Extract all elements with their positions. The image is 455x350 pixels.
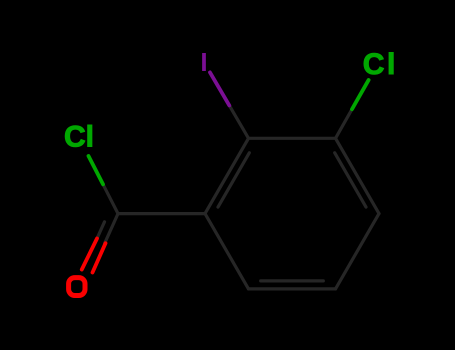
svg-text:I: I bbox=[200, 47, 207, 77]
svg-text:Cl: Cl bbox=[64, 121, 94, 154]
svg-text:Cl: Cl bbox=[363, 48, 398, 81]
